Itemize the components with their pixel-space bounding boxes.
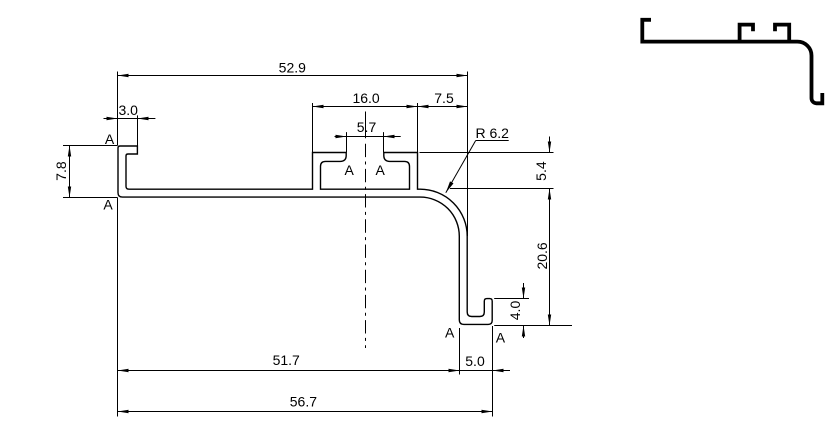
svg-text:20.6: 20.6: [534, 242, 550, 269]
dimension 52.9: [118, 59, 468, 236]
svg-text:A: A: [103, 197, 113, 213]
centerline slot axis: [365, 112, 367, 139]
svg-text:A: A: [345, 162, 355, 178]
svg-text:5.0: 5.0: [465, 353, 485, 369]
dimension 5.4: [420, 137, 554, 200]
thumbnail slot left hook: [740, 25, 753, 42]
svg-text:52.9: 52.9: [279, 59, 306, 75]
svg-text:R 6.2: R 6.2: [476, 125, 510, 141]
svg-text:A: A: [376, 162, 386, 178]
dimension 7.8: [53, 146, 118, 198]
svg-text:3.0: 3.0: [119, 102, 139, 118]
svg-text:5.7: 5.7: [357, 119, 377, 135]
svg-text:4.0: 4.0: [507, 301, 523, 321]
svg-text:A: A: [445, 325, 455, 341]
svg-text:51.7: 51.7: [273, 352, 300, 368]
svg-text:7.8: 7.8: [53, 161, 69, 181]
dimension 7.5: [418, 90, 468, 108]
thumbnail profile main contour: [642, 20, 822, 104]
profile outline: [118, 146, 492, 324]
dimension 16.0: [313, 90, 418, 153]
dimension 56.7: [118, 394, 493, 414]
svg-text:56.7: 56.7: [290, 394, 317, 410]
thumbnail slot right hook: [775, 25, 789, 42]
dimension 5.0: [460, 326, 511, 417]
svg-text:16.0: 16.0: [352, 90, 379, 106]
dimension 3.0: [104, 102, 156, 146]
svg-text:A: A: [496, 329, 506, 345]
dimension 5.7: [335, 119, 401, 152]
radius leader R 6.2: [446, 125, 509, 193]
svg-text:A: A: [105, 131, 115, 147]
dimension 51.7: [118, 198, 460, 417]
svg-text:7.5: 7.5: [434, 90, 454, 106]
dimension 4.0: [494, 283, 529, 338]
dimension 20.6: [494, 189, 572, 326]
svg-text:5.4: 5.4: [533, 161, 549, 181]
